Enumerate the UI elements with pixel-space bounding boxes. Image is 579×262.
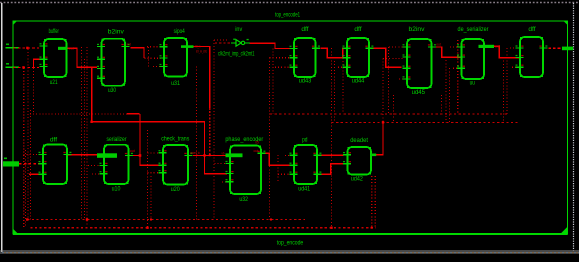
svg-text:ud44: ud44 <box>352 78 365 85</box>
svg-text:ud41: ud41 <box>298 185 310 192</box>
svg-text:pd: pd <box>302 136 308 143</box>
svg-text:u31: u31 <box>171 80 180 87</box>
svg-text:top_encode: top_encode <box>277 239 304 246</box>
svg-text:sipo4: sipo4 <box>174 28 186 35</box>
svg-text:out: out <box>254 149 259 153</box>
svg-text:out0: out0 <box>495 44 500 48</box>
svg-text:inv: inv <box>235 26 243 33</box>
svg-text:dff: dff <box>301 26 308 33</box>
svg-text:assert_to: assert_to <box>190 151 200 155</box>
svg-text:u10: u10 <box>112 186 121 193</box>
svg-text:ud42: ud42 <box>351 175 363 182</box>
svg-text:u30: u30 <box>108 87 116 94</box>
svg-text:out: out <box>69 47 75 51</box>
svg-text:05: 05 <box>255 140 259 144</box>
svg-text:buffer: buffer <box>49 28 59 35</box>
svg-text:clk2mt_imp_clk2mt1: clk2mt_imp_clk2mt1 <box>218 51 255 58</box>
svg-text:d0t_im_d0t1: d0t_im_d0t1 <box>196 50 207 54</box>
svg-text:vb: vb <box>222 151 225 155</box>
svg-text:u20: u20 <box>171 186 180 193</box>
svg-text:ud43: ud43 <box>299 78 312 85</box>
svg-text:deadet: deadet <box>350 137 368 144</box>
svg-text:de_serializer: de_serializer <box>458 26 489 33</box>
svg-text:b2inv: b2inv <box>108 28 125 35</box>
svg-text:serializer: serializer <box>107 136 127 143</box>
svg-text:out: out <box>436 43 441 47</box>
svg-text:u21: u21 <box>50 79 58 86</box>
svg-text:dff: dff <box>528 26 535 33</box>
svg-text:check_trans: check_trans <box>161 136 189 143</box>
svg-text:top_encode1: top_encode1 <box>275 11 300 18</box>
svg-text:out: out <box>130 149 135 153</box>
svg-text:b2inv: b2inv <box>409 26 426 33</box>
svg-text:dff: dff <box>354 26 361 33</box>
svg-text:ud45: ud45 <box>412 89 426 96</box>
svg-text:out: out <box>126 43 131 47</box>
svg-text:uu: uu <box>470 80 476 87</box>
svg-text:d0t_in: d0t_in <box>195 45 201 49</box>
svg-text:dff: dff <box>50 137 57 144</box>
svg-text:u32: u32 <box>239 196 248 203</box>
